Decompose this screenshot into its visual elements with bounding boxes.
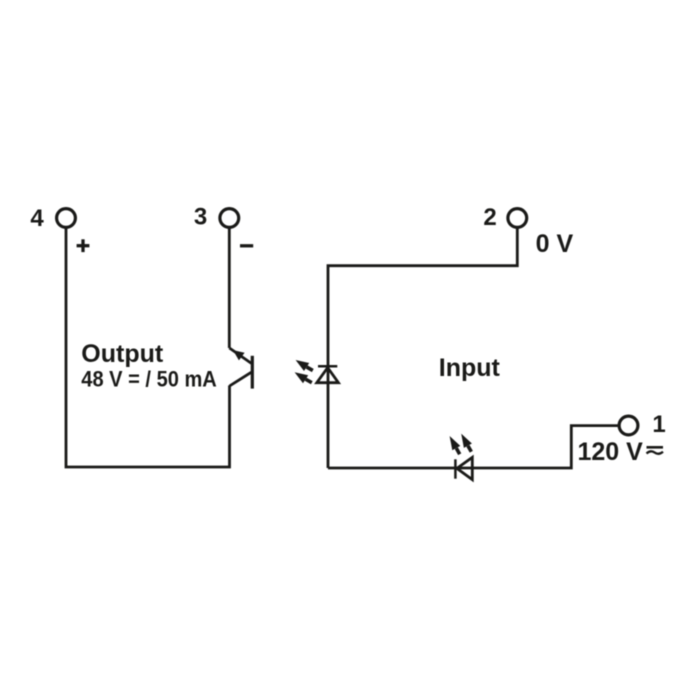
minus sign at terminal 3 xyxy=(240,244,253,247)
terminal 1 xyxy=(619,416,638,435)
light arrow B1 (LED D1) xyxy=(450,436,461,454)
plus sign at terminal 4 xyxy=(77,239,90,252)
wire input bottom: left junction to right, up, to terminal 1 xyxy=(328,426,618,468)
svg-text:48 V = / 50 mA: 48 V = / 50 mA xyxy=(81,367,217,392)
light arrow A1 (diode D2) xyxy=(296,360,313,371)
terminal 4 xyxy=(57,209,76,228)
diode D2 bar (cathode) xyxy=(318,365,337,368)
svg-text:4: 4 xyxy=(30,205,44,232)
svg-text:1: 1 xyxy=(652,411,665,438)
wire terminal 3 down to collector xyxy=(228,228,231,348)
AC/DC symbol xyxy=(647,447,664,454)
transistor Q1 emitter arrow xyxy=(233,350,245,360)
wire input top: terminal 2 down, left, down through diode to bottom xyxy=(328,228,517,468)
light arrow A2 (diode D2) xyxy=(295,372,312,383)
svg-text:Output: Output xyxy=(81,340,164,368)
svg-text:3: 3 xyxy=(194,204,207,231)
transistor Q1 base bar xyxy=(251,356,254,389)
terminal 2 xyxy=(508,209,527,228)
LED D1 bar (cathode) xyxy=(454,459,457,478)
svg-text:2: 2 xyxy=(483,204,496,231)
diode D2 triangle xyxy=(317,368,339,383)
svg-text:0 V: 0 V xyxy=(536,230,574,258)
transistor Q1 collector diagonal xyxy=(229,348,251,363)
svg-text:Input: Input xyxy=(439,354,501,382)
transistor Q1 emitter diagonal xyxy=(230,372,252,386)
light arrow B2 (LED D1) xyxy=(461,434,472,452)
terminal 3 xyxy=(220,209,239,228)
svg-text:120 V: 120 V xyxy=(578,438,644,466)
LED D1 triangle xyxy=(457,457,472,479)
wire output loop: terminal 4 down, bottom, up to emitter xyxy=(66,228,230,467)
